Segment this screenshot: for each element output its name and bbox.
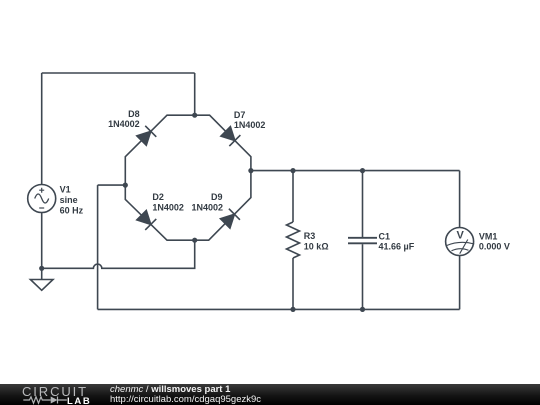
svg-text:C1: C1 — [379, 231, 391, 241]
svg-text:1N4002: 1N4002 — [234, 120, 266, 130]
svg-text:VM1: VM1 — [479, 231, 498, 241]
wire left vertical (negative output) — [97, 185, 99, 309]
wire VM1 bottom lead — [459, 256, 461, 310]
footer title line — [110, 385, 230, 395]
svg-text:D8: D8 — [128, 109, 140, 119]
svg-text:1N4002: 1N4002 — [152, 202, 184, 212]
resistor R3 — [287, 222, 329, 258]
svg-text:D7: D7 — [234, 110, 246, 120]
svg-text:V: V — [457, 230, 465, 242]
CircuitLab logo wordmark — [22, 386, 88, 398]
svg-text:V1: V1 — [60, 185, 71, 195]
diode D9 — [191, 192, 239, 228]
svg-text:10 kΩ: 10 kΩ — [304, 241, 329, 251]
node: bridge bottom — [192, 238, 197, 243]
node: bridge top — [192, 113, 197, 118]
node: R3 bottom tap — [290, 307, 295, 312]
svg-text:sine: sine — [60, 195, 78, 205]
node: ground junction — [39, 266, 44, 271]
svg-text:1N4002: 1N4002 — [108, 119, 140, 129]
node: R3 top tap — [290, 168, 295, 173]
svg-text:41.66 µF: 41.66 µF — [379, 242, 415, 252]
svg-text:60 Hz: 60 Hz — [60, 205, 84, 215]
wire bottom rail — [98, 308, 460, 310]
svg-text:D2: D2 — [152, 192, 164, 202]
svg-text:R3: R3 — [304, 231, 316, 241]
wire bridge left node stub — [98, 184, 126, 186]
wire bridge top lead — [194, 73, 196, 115]
wire R3 bottom lead — [292, 258, 294, 309]
footer url line — [110, 395, 261, 405]
ground — [30, 268, 53, 290]
svg-text:0.000 V: 0.000 V — [479, 242, 510, 252]
diode D7 — [221, 110, 266, 146]
node: bridge right — [248, 168, 253, 173]
wire C1 bottom lead — [362, 244, 364, 309]
capacitor C1 — [348, 231, 415, 251]
diode D8 — [108, 109, 156, 145]
wire C1 top lead — [362, 171, 364, 237]
wire V1 top lead — [41, 73, 43, 185]
node: C1 top tap — [360, 168, 365, 173]
wire output top rail — [251, 170, 460, 172]
wire top rail — [42, 72, 195, 74]
voltmeter VM1 — [446, 228, 510, 256]
CircuitLab logo schematic line — [22, 395, 68, 405]
source V1 — [28, 185, 84, 216]
CircuitLab logo LAB — [67, 397, 91, 405]
wire V1 to bridge bottom (with hop over crossing) — [42, 240, 195, 268]
wire VM1 top lead — [459, 171, 461, 228]
svg-text:1N4002: 1N4002 — [191, 202, 223, 212]
wire V1 bottom lead — [41, 213, 43, 269]
node: C1 bottom tap — [360, 307, 365, 312]
diode D2 — [137, 192, 184, 230]
wire R3 top lead — [292, 171, 294, 222]
bridge octagon body — [125, 115, 251, 240]
node: bridge left — [123, 183, 128, 188]
svg-text:D9: D9 — [211, 192, 223, 202]
